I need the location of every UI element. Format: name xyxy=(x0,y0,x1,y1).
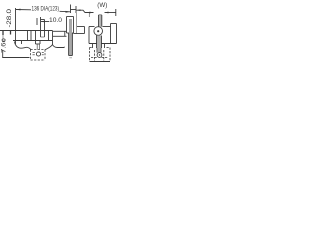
svg-text:10.0: 10.0 xyxy=(49,18,63,24)
svg-text:-28.0: -28.0 xyxy=(7,8,13,27)
svg-text:136 DIA(123): 136 DIA(123) xyxy=(32,6,60,12)
svg-text:(W): (W) xyxy=(97,3,107,9)
svg-text:7.6: 7.6 xyxy=(2,42,8,53)
